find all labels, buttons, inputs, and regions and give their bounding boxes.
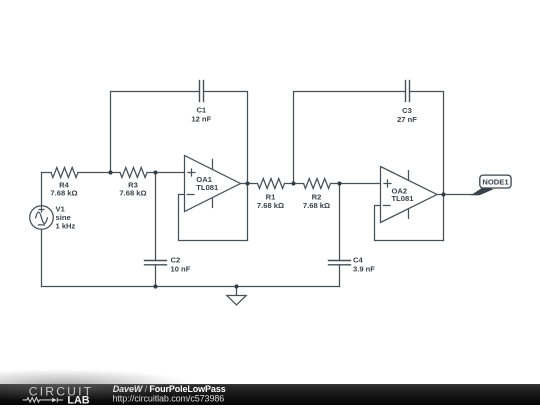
wire xyxy=(241,183,258,185)
logo resistor squiggle + diode xyxy=(23,398,63,403)
capacitor C2 xyxy=(145,261,167,265)
op-amp OA2 xyxy=(381,167,438,223)
capacitor C3 xyxy=(406,81,410,102)
svg-text:C1: C1 xyxy=(196,106,206,115)
resistor R1 xyxy=(258,179,285,189)
wire xyxy=(375,206,444,241)
node OA1 output xyxy=(245,181,249,185)
node C2/rail xyxy=(153,284,157,288)
wire xyxy=(78,172,120,174)
svg-text:C3: C3 xyxy=(402,106,412,115)
svg-text:DaveW / FourPoleLowPass: DaveW / FourPoleLowPass xyxy=(113,384,226,394)
svg-text:27 nF: 27 nF xyxy=(397,115,417,124)
wire xyxy=(111,92,200,173)
wire xyxy=(42,286,340,288)
wire xyxy=(179,195,248,241)
wire xyxy=(155,265,157,287)
wire xyxy=(339,184,341,261)
wire xyxy=(147,172,185,174)
node OA2 output xyxy=(441,192,445,196)
wire xyxy=(41,230,43,287)
svg-text:C4: C4 xyxy=(353,256,363,265)
svg-text:1 kHz: 1 kHz xyxy=(56,222,76,231)
wire xyxy=(285,183,304,185)
capacitor C1 xyxy=(200,81,204,102)
svg-text:7.68 kΩ: 7.68 kΩ xyxy=(257,201,284,210)
wire xyxy=(331,183,381,185)
resistor R2 xyxy=(304,179,331,189)
node R3/OA1+/C2 xyxy=(153,170,157,174)
wire xyxy=(155,173,157,261)
resistor R3 xyxy=(120,168,147,178)
svg-text:C2: C2 xyxy=(171,256,181,265)
node R4/R3/C1 xyxy=(108,170,112,174)
op-amp OA1 xyxy=(185,156,241,212)
node R1/R2/C3 xyxy=(291,181,295,185)
node R2/OA2+/C4 xyxy=(337,181,341,185)
node ground/rail xyxy=(234,284,238,288)
svg-text:http://circuitlab.com/c573986: http://circuitlab.com/c573986 xyxy=(113,394,225,404)
svg-text:TL081: TL081 xyxy=(196,183,219,192)
wire xyxy=(294,92,406,184)
svg-text:3.9 nF: 3.9 nF xyxy=(353,265,375,274)
svg-text:7.68 kΩ: 7.68 kΩ xyxy=(119,188,146,197)
wire xyxy=(204,92,248,241)
svg-text:7.68 kΩ: 7.68 kΩ xyxy=(50,188,77,197)
wire xyxy=(42,173,52,206)
svg-text:12 nF: 12 nF xyxy=(191,115,211,124)
ground xyxy=(227,287,246,305)
svg-text:7.68 kΩ: 7.68 kΩ xyxy=(303,201,330,210)
wire xyxy=(339,265,341,287)
svg-text:NODE1: NODE1 xyxy=(482,177,509,186)
capacitor C4 xyxy=(329,261,351,265)
voltage source V1 xyxy=(30,206,54,230)
wire xyxy=(410,92,444,241)
wire xyxy=(437,194,478,196)
node NODE1 flag xyxy=(471,175,511,195)
resistor R4 xyxy=(51,168,78,178)
svg-text:10 nF: 10 nF xyxy=(171,265,191,274)
svg-text:TL081: TL081 xyxy=(392,194,415,203)
svg-text:LAB: LAB xyxy=(67,395,89,405)
